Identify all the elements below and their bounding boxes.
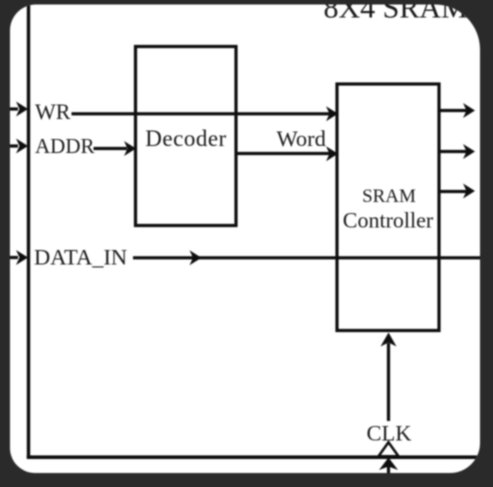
- wire CLK: [381, 333, 397, 422]
- label DATA_IN: [34, 245, 127, 270]
- outer box left edge: [27, 0, 30, 458]
- block Decoder: [136, 47, 237, 226]
- title 8X4 SRAM: [324, 0, 468, 25]
- output arrow 1: [439, 103, 475, 118]
- label ADDR: [35, 134, 95, 158]
- label CLK: [367, 421, 413, 446]
- svg-text:WR: WR: [35, 99, 71, 124]
- CLK hollow arrowhead at outer box edge: [379, 442, 399, 456]
- input arrow ADDR: [10, 139, 28, 154]
- svg-text:Word: Word: [277, 126, 326, 151]
- input arrow WR: [10, 102, 28, 117]
- output arrow 3: [439, 184, 475, 199]
- label WR: [35, 99, 71, 124]
- svg-text:DATA_IN: DATA_IN: [34, 245, 127, 270]
- wire ADDR: [94, 141, 137, 156]
- output arrow 2: [439, 144, 475, 159]
- label SRAM: [362, 186, 416, 207]
- label Controller: [343, 208, 434, 233]
- wire WR: [72, 106, 339, 121]
- wire Word: [236, 146, 338, 161]
- CLK external arrowhead below outer box edge: [379, 458, 398, 474]
- label Decoder: [145, 126, 226, 151]
- wire DATA_IN: [133, 250, 480, 265]
- input arrow DATA_IN: [10, 250, 28, 265]
- svg-text:SRAM: SRAM: [362, 186, 416, 207]
- svg-text:Controller: Controller: [343, 208, 434, 233]
- svg-text:Decoder: Decoder: [145, 126, 226, 151]
- block SRAM Controller: [337, 84, 439, 331]
- label Word: [277, 126, 326, 151]
- outer box bottom edge: [27, 455, 480, 459]
- svg-text:ADDR: ADDR: [35, 134, 95, 158]
